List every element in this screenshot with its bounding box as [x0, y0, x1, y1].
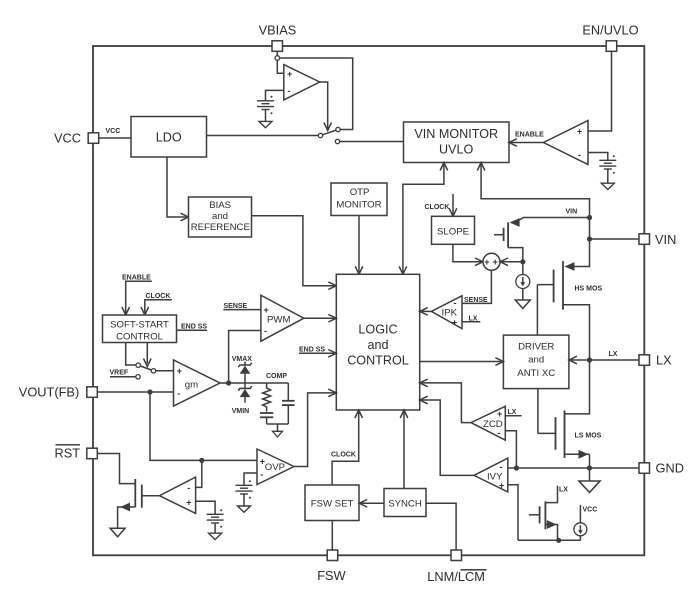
- wire OVP - input to battery: [244, 473, 257, 485]
- wire IVY output to LOGIC: [422, 400, 474, 475]
- amplifier gm: [174, 360, 221, 406]
- svg-text:VCC: VCC: [583, 507, 598, 514]
- wire LDO bottom to BIAS: [167, 157, 187, 217]
- svg-text:END SS: END SS: [299, 347, 325, 354]
- wire FSW SET to FSW pin: [331, 521, 333, 551]
- svg-text:LOGIC: LOGIC: [358, 323, 397, 337]
- transistor LNM FET: [529, 501, 558, 540]
- svg-text:OTP: OTP: [350, 187, 370, 198]
- wire RST comparator - to VOUT net: [196, 460, 202, 487]
- svg-text:IVY: IVY: [487, 472, 503, 483]
- wire SYNCH to LOGIC: [403, 412, 405, 489]
- wire LX junction to DRIVER: [571, 359, 590, 361]
- comparator IVY: [474, 458, 508, 492]
- svg-text:LX: LX: [656, 353, 672, 368]
- ground below comp network: [273, 431, 283, 437]
- wire VCC pin to LDO: [99, 137, 131, 139]
- transistor HS MOS: [537, 261, 602, 360]
- wire IVY + down to bottom net: [508, 485, 518, 541]
- svg-text:-: -: [260, 470, 263, 480]
- svg-text:LS MOS: LS MOS: [575, 433, 602, 440]
- svg-text:VBIAS: VBIAS: [259, 23, 297, 38]
- wire LX junction to pin: [590, 359, 640, 361]
- svg-text:LX: LX: [559, 487, 568, 494]
- svg-text:+: +: [264, 305, 269, 315]
- node VIN pin junction: [587, 236, 592, 241]
- wire OTP MONITOR to LOGIC: [358, 216, 360, 273]
- svg-text:VIN: VIN: [655, 232, 676, 247]
- svg-text:and: and: [212, 211, 228, 222]
- wire RST comparator output to FET gate: [142, 495, 160, 497]
- wire LOGIC to DRIVER: [420, 361, 502, 363]
- svg-text:VMIN: VMIN: [232, 408, 250, 415]
- pin GND: [639, 461, 684, 476]
- svg-text:-: -: [187, 483, 190, 493]
- transistor LS MOS: [538, 410, 602, 458]
- comparator IPK: [431, 296, 462, 329]
- svg-text:VCC: VCC: [54, 131, 81, 146]
- op-amp U1 VBIAS buffer: [284, 65, 320, 100]
- block SOFT-START CONTROL: [103, 315, 177, 343]
- svg-text:VCC: VCC: [106, 128, 121, 135]
- wire ZCD - down to GND net: [505, 431, 516, 468]
- battery at op-amp inverting input: [266, 90, 284, 100]
- wire PWM - input to gm output node: [229, 331, 261, 384]
- svg-text:-: -: [500, 462, 503, 472]
- wire IVY - stub to GND junction: [508, 467, 517, 469]
- wire bottom net: [518, 539, 580, 541]
- resistor R comp: [263, 383, 271, 412]
- wire CLOCK into SOFT-START: [145, 300, 172, 313]
- wire RST pin to FET drain: [98, 454, 136, 484]
- svg-text:RST: RST: [55, 446, 81, 461]
- svg-text:REFERENCE: REFERENCE: [191, 222, 250, 233]
- comparator PWM: [261, 295, 304, 341]
- pin VIN: [639, 232, 676, 247]
- wire VIN junction to pin: [590, 238, 640, 240]
- pin LNM/LCM (LCM active low): [427, 550, 486, 584]
- wire switch to gm + input: [156, 370, 174, 372]
- ground below RST FET: [110, 528, 125, 537]
- wire ENABLE into SOFT-START: [126, 281, 152, 313]
- svg-text:+: +: [484, 257, 489, 267]
- svg-text:+: +: [577, 127, 582, 137]
- wire LS MOS source to GND line: [589, 454, 591, 468]
- wire VOUT tap down to lower net: [150, 392, 257, 460]
- pin FSW: [317, 550, 346, 583]
- comparator RST: [159, 477, 195, 513]
- wire VBIAS pin to tap: [276, 51, 278, 55]
- battery at RST comparator: [207, 509, 224, 528]
- ground below op-amp battery: [265, 110, 267, 122]
- svg-text:VREF: VREF: [110, 370, 129, 377]
- svg-text:PWM: PWM: [267, 315, 290, 326]
- block DRIVER and ANTI XC: [503, 335, 569, 389]
- svg-text:LX: LX: [609, 351, 618, 358]
- node RST comparator tap: [199, 458, 204, 463]
- wire FSW SET clock output to LOGIC: [332, 412, 359, 485]
- wire CLOCK into SLOPE: [452, 194, 454, 214]
- wire sense FET to summing junction: [502, 261, 523, 263]
- svg-text:VIN: VIN: [566, 209, 578, 216]
- block SLOPE: [432, 216, 475, 244]
- node bottom net junction: [556, 538, 561, 543]
- wire LX junction to LS MOS drain: [565, 360, 590, 414]
- comparator ZCD: [471, 406, 505, 440]
- wire VIN tap to sense FET drain: [511, 218, 590, 223]
- svg-text:-: -: [288, 86, 291, 96]
- block FSW SET: [305, 485, 359, 521]
- svg-text:CLOCK: CLOCK: [425, 204, 450, 211]
- svg-text:CLOCK: CLOCK: [331, 452, 356, 459]
- svg-text:VMAX: VMAX: [232, 356, 253, 363]
- chip boundary: [93, 46, 644, 555]
- zener VMIN: [232, 386, 252, 415]
- pin VCC: [54, 131, 99, 146]
- ground below current source I1: [522, 289, 524, 301]
- svg-text:and: and: [528, 355, 544, 366]
- svg-text:VOUT(FB): VOUT(FB): [19, 385, 79, 400]
- wire LX stub to LNM FET drain: [545, 486, 557, 503]
- svg-text:GND: GND: [656, 461, 684, 476]
- comparator EN: [544, 121, 589, 165]
- battery at EN comparator: [599, 155, 616, 174]
- svg-text:CONTROL: CONTROL: [116, 332, 164, 343]
- pin RST (active low): [55, 445, 98, 461]
- svg-text:FSW: FSW: [317, 568, 346, 583]
- wire SLOPE to summing junction: [453, 244, 481, 261]
- svg-text:HS MOS: HS MOS: [575, 286, 603, 293]
- block LOGIC and CONTROL: [336, 274, 419, 410]
- svg-text:SLOPE: SLOPE: [437, 227, 469, 238]
- capacitor C comp parallel: [282, 383, 295, 424]
- wire SYNCH to LNM/LCM pin: [426, 503, 456, 550]
- transistor RST FET: [118, 479, 142, 528]
- comparator OVP: [257, 449, 294, 485]
- svg-text:+: +: [497, 409, 502, 419]
- svg-text:-: -: [578, 150, 581, 160]
- battery at OVP: [236, 480, 253, 499]
- node VOUT net tap: [147, 389, 152, 394]
- svg-text:MONITOR: MONITOR: [336, 200, 381, 211]
- svg-text:LX: LX: [469, 316, 478, 323]
- svg-text:LNM/LCM: LNM/LCM: [427, 569, 485, 584]
- svg-text:BIAS: BIAS: [209, 200, 231, 211]
- svg-text:LDO: LDO: [156, 130, 182, 144]
- svg-text:COMP: COMP: [266, 373, 287, 380]
- summing junction: [483, 253, 500, 270]
- svg-text:OVP: OVP: [265, 462, 285, 473]
- current source I2 VCC: [579, 505, 581, 523]
- wire OVP output to LOGIC: [294, 393, 334, 467]
- svg-text:SOFT-START: SOFT-START: [110, 320, 169, 331]
- wire VIN net to VIN MONITOR: [481, 165, 589, 240]
- node gm output junction: [226, 380, 231, 385]
- node sense source junction: [520, 259, 525, 264]
- wire END SS stub from SOFT-START: [177, 329, 208, 331]
- wire BIAS to LOGIC: [252, 216, 335, 286]
- svg-text:+: +: [177, 366, 182, 376]
- wire switch lower throw to VIN MONITOR: [340, 141, 404, 143]
- node GND left junction: [514, 465, 519, 470]
- svg-text:+: +: [493, 257, 498, 267]
- wire LOGIC to VIN MONITOR (handshake): [403, 165, 444, 273]
- svg-text:EN/UVLO: EN/UVLO: [582, 23, 638, 38]
- wire SOFT-START ramp arrow onto switch: [146, 343, 148, 364]
- svg-text:+: +: [186, 498, 191, 508]
- zener VMAX: [232, 356, 253, 388]
- current source I1: [522, 262, 524, 275]
- ground below RST battery: [214, 523, 216, 533]
- wire LDO output to switch: [207, 135, 319, 137]
- block BIAS and REFERENCE: [189, 197, 252, 237]
- svg-text:ZCD: ZCD: [483, 419, 503, 430]
- pin VOUT(FB): [19, 385, 98, 400]
- wire VBIAS tap to op-amp + input: [277, 60, 284, 73]
- svg-text:UVLO: UVLO: [439, 143, 473, 157]
- wire END SS stub to LOGIC: [299, 352, 334, 354]
- wire GND line: [516, 467, 639, 469]
- svg-text:SENSE: SENSE: [464, 297, 488, 304]
- transistor sense FET: [494, 222, 523, 261]
- wire VOUT(FB) pin to gm - input: [98, 391, 174, 393]
- svg-text:FSW SET: FSW SET: [311, 499, 354, 510]
- pin VBIAS: [259, 23, 297, 52]
- svg-text:CONTROL: CONTROL: [347, 354, 409, 368]
- wire summing junction to IPK -: [462, 270, 491, 303]
- wire SOFT-START to switch throw: [126, 343, 136, 366]
- wire LX stub at IPK +: [462, 321, 480, 323]
- ground below OVP battery: [243, 494, 245, 506]
- ground arrow on GND net: [589, 468, 591, 481]
- wire VBIAS tap to switch (right and down): [280, 58, 353, 130]
- wire DRIVER to LS MOS gate: [537, 389, 539, 434]
- wire IPK output to LOGIC: [422, 310, 432, 312]
- svg-text:DRIVER: DRIVER: [518, 342, 554, 353]
- svg-text:ANTI XC: ANTI XC: [517, 368, 555, 379]
- svg-text:-: -: [264, 326, 267, 336]
- pin EN/UVLO: [582, 23, 638, 52]
- svg-text:and: and: [368, 338, 389, 352]
- wire VIN junction down to HS MOS drain: [566, 239, 590, 267]
- svg-text:+: +: [287, 69, 292, 79]
- svg-text:IPK: IPK: [442, 308, 458, 319]
- wire ENABLE comparator output to VIN MONITOR: [511, 142, 544, 144]
- wire VREF stub: [110, 376, 136, 378]
- wire ZCD output to LOGIC: [422, 383, 471, 423]
- node LX junction: [587, 357, 592, 362]
- wire PWM output to LOGIC: [304, 317, 335, 319]
- wire comp network join: [267, 423, 289, 425]
- wire HS MOS gate to DRIVER: [536, 285, 538, 336]
- ground below EN battery: [607, 169, 609, 183]
- svg-text:LX: LX: [508, 409, 517, 416]
- node VBIAS tap circle: [275, 56, 280, 61]
- switch SW1 (LDO / VBIAS select): [318, 127, 340, 143]
- wire RST comparator + to battery: [196, 501, 216, 514]
- svg-text:+: +: [452, 318, 457, 328]
- wire op-amp output down to switch: [320, 82, 328, 129]
- wire SENSE stub to PWM +: [223, 309, 261, 311]
- pin LX: [639, 353, 672, 368]
- svg-text:gm: gm: [185, 380, 198, 391]
- switch SW2 (SS ramp / VREF select): [136, 363, 156, 379]
- svg-text:ENABLE: ENABLE: [515, 132, 544, 139]
- svg-text:VIN MONITOR: VIN MONITOR: [414, 127, 498, 141]
- wire gm output node: [220, 382, 288, 384]
- block VIN MONITOR UVLO: [404, 122, 510, 163]
- wire SYNCH to FSW SET: [361, 502, 384, 504]
- node VIN gate tap: [587, 215, 592, 220]
- block SYNCH: [384, 489, 426, 517]
- svg-text:-: -: [177, 389, 180, 399]
- wire LX stub at ZCD +: [505, 415, 521, 417]
- block OTP MONITOR: [331, 183, 387, 216]
- wire EN/UVLO pin to comparator +: [588, 51, 612, 131]
- capacitor C comp series: [260, 413, 273, 424]
- svg-text:SYNCH: SYNCH: [388, 499, 422, 510]
- block LDO: [131, 117, 207, 158]
- svg-text:-: -: [454, 298, 457, 308]
- node GND right junction: [587, 465, 592, 470]
- wire EN comparator - to battery: [588, 153, 608, 161]
